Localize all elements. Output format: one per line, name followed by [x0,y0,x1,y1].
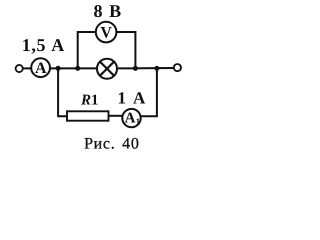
svg-text:R1: R1 [80,93,99,109]
svg-text:Рис. 40: Рис. 40 [84,136,139,153]
svg-text:V: V [100,24,112,41]
svg-text:8 В: 8 В [93,1,121,21]
svg-text:1: 1 [136,116,141,126]
svg-text:1,5 А: 1,5 А [22,35,65,55]
svg-text:А: А [35,60,47,77]
svg-text:1 А: 1 А [118,88,146,107]
svg-text:А: А [125,111,136,127]
